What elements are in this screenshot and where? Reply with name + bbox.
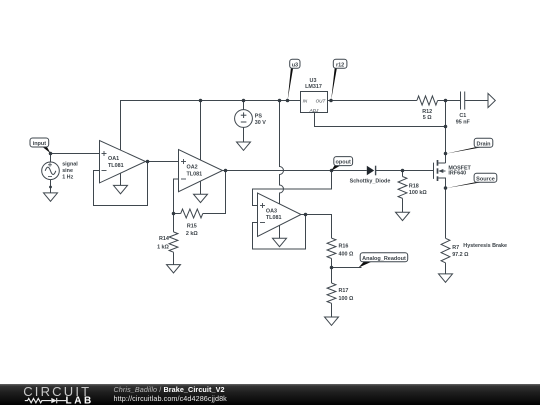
svg-text:2 kΩ: 2 kΩ [186,231,198,237]
svg-text:U3: U3 [310,78,317,84]
svg-text:1 kΩ: 1 kΩ [157,244,169,250]
svg-text:R15: R15 [187,223,197,229]
svg-text:PS: PS [255,113,263,119]
svg-text:R16: R16 [339,244,349,250]
svg-text:OA1: OA1 [108,156,119,162]
svg-text:Hysteresis Brake: Hysteresis Brake [463,243,507,249]
svg-text:R7: R7 [452,245,459,251]
svg-text:97.2 Ω: 97.2 Ω [452,252,469,258]
svg-text:400 Ω: 400 Ω [339,252,354,258]
svg-text:C1: C1 [459,113,466,119]
svg-text:sine: sine [62,168,73,174]
svg-text:R18: R18 [409,183,419,189]
svg-text:ADJ: ADJ [309,108,319,113]
svg-text:100 kΩ: 100 kΩ [409,190,427,196]
svg-text:TL081: TL081 [187,171,203,177]
svg-text:input: input [33,141,47,147]
svg-text:IN: IN [303,98,308,103]
svg-text:1 Hz: 1 Hz [62,175,73,181]
svg-text:R17: R17 [339,288,349,294]
svg-text:OA2: OA2 [187,165,198,171]
svg-text:IRF640: IRF640 [448,171,466,177]
svg-text:TL081: TL081 [266,215,282,221]
svg-text:R14: R14 [159,236,169,242]
svg-text:opout: opout [336,160,351,166]
svg-text:TL081: TL081 [108,163,124,169]
svg-text:OUT: OUT [316,98,327,103]
svg-text:Analog_Readout: Analog_Readout [362,256,406,262]
svg-text:100 Ω: 100 Ω [339,296,354,302]
svg-text:5 Ω: 5 Ω [423,115,432,121]
svg-text:Source: Source [476,176,495,182]
svg-text:signal: signal [62,162,78,168]
svg-text:Drain: Drain [476,141,491,147]
svg-text:LAB: LAB [66,396,94,405]
svg-text:95 nF: 95 nF [456,120,471,126]
svg-text:u3: u3 [292,62,298,68]
svg-text:r12: r12 [336,62,344,68]
svg-text:OA3: OA3 [266,208,277,214]
svg-text:Schottky_Diode: Schottky_Diode [350,179,391,185]
svg-text:30 V: 30 V [255,120,266,126]
svg-text:LM317: LM317 [305,84,322,90]
